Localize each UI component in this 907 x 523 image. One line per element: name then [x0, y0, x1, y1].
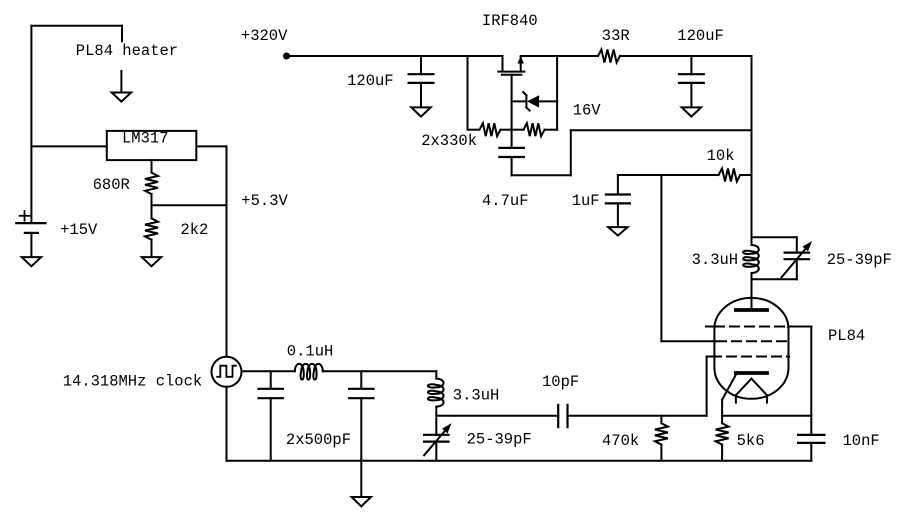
label 5k6	[737, 432, 765, 450]
label 10pF	[542, 373, 579, 391]
capacitor 4.7uF	[499, 130, 751, 175]
resistor 2k2	[145, 205, 158, 257]
wire +5.3V vertical	[226, 146, 228, 356]
svg-text:+15V: +15V	[60, 221, 98, 239]
svg-text:680R: 680R	[93, 176, 130, 194]
tube V1 PL84 envelope	[714, 298, 788, 399]
svg-text:PL84 heater: PL84 heater	[76, 42, 178, 60]
wire clock to ground rail	[226, 387, 228, 461]
label IRF840	[482, 12, 538, 30]
label 2x330k	[421, 132, 477, 150]
heater filament	[736, 379, 767, 403]
wire anode lead	[751, 279, 753, 310]
ground 1uF	[608, 227, 627, 236]
svg-text:3.3uH: 3.3uH	[692, 251, 739, 269]
label 2k2	[180, 221, 208, 239]
label +15V	[60, 221, 98, 239]
wire clock output	[242, 370, 295, 372]
label 3.3uH tank	[692, 251, 739, 269]
mosfet Q1 IRF840	[498, 56, 524, 148]
resistor 5k6	[716, 416, 729, 461]
grid g1 dashed	[717, 340, 789, 342]
wire divider left drop	[467, 56, 469, 130]
resistor 470k	[655, 416, 668, 461]
zener diode 16V	[512, 92, 557, 111]
capacitor 10nF	[798, 435, 824, 461]
trimmer capacitor 25-39pF lower	[424, 416, 452, 461]
node +320V terminal	[283, 53, 290, 60]
label 120uF first	[347, 72, 394, 90]
ground bottom rail	[352, 461, 371, 507]
label 25-39pF tank	[827, 251, 892, 269]
svg-text:14.318MHz clock: 14.318MHz clock	[63, 373, 203, 391]
arrow to PL84 heater	[112, 71, 131, 102]
label 16V	[573, 102, 602, 120]
label 1uF	[572, 192, 600, 210]
ground 120uF second	[682, 107, 701, 116]
anode plate	[736, 308, 767, 312]
svg-text:2x500pF: 2x500pF	[286, 431, 351, 449]
wire cathode node	[722, 415, 811, 417]
trimmer capacitor 25-39pF tank	[752, 237, 813, 279]
capacitor 500pF second	[349, 371, 373, 461]
label +320V	[241, 27, 288, 45]
grid g2 dashed	[706, 326, 811, 328]
svg-text:10pF: 10pF	[542, 373, 579, 391]
wire ground rail bottom	[227, 460, 812, 462]
svg-text:25-39pF: 25-39pF	[827, 251, 892, 269]
svg-text:2k2: 2k2	[180, 221, 208, 239]
svg-text:10nF: 10nF	[843, 432, 880, 450]
resistor 330k left	[468, 123, 512, 136]
wire cathode lead	[722, 375, 736, 416]
wire oscillator node	[436, 415, 558, 417]
svg-text:470k: 470k	[602, 432, 639, 450]
resistor 330k right	[512, 123, 557, 136]
wire B+ vertical	[751, 56, 753, 237]
svg-text:120uF: 120uF	[347, 72, 394, 90]
capacitor 120uF second	[679, 56, 704, 107]
svg-text:25-39pF: 25-39pF	[467, 431, 532, 449]
wire rail to right corner	[620, 55, 752, 57]
label 10k	[707, 147, 735, 165]
wire rail after mosfet	[521, 55, 598, 57]
wire +320V rail	[287, 55, 503, 57]
resistor 10k	[618, 169, 752, 182]
svg-text:16V: 16V	[573, 102, 602, 120]
svg-text:+5.3V: +5.3V	[241, 192, 288, 210]
ground battery	[22, 257, 41, 266]
resistor 33R	[598, 50, 620, 63]
resistor 680R	[145, 173, 158, 206]
inductor L3 3.3uH tank	[743, 237, 759, 279]
capacitor 10pF	[558, 405, 567, 427]
wire left vertical	[30, 26, 32, 223]
label 4.7uF	[482, 192, 529, 210]
svg-text:4.7uF: 4.7uF	[482, 192, 529, 210]
svg-text:2x330k: 2x330k	[421, 132, 477, 150]
capacitor 120uF first	[409, 56, 434, 107]
wire divider right drop	[556, 56, 558, 130]
inductor L2 3.3uH	[428, 371, 444, 416]
label 3.3uH lower	[453, 387, 500, 405]
clock source 14.318MHz	[212, 357, 242, 387]
label PL84	[828, 327, 865, 345]
svg-text:PL84: PL84	[828, 327, 865, 345]
wire LM317 adj	[151, 160, 153, 173]
svg-text:0.1uH: 0.1uH	[287, 342, 334, 360]
wire grid feed	[661, 175, 717, 341]
capacitor 500pF first	[259, 371, 283, 461]
label 14.318MHz clock	[63, 373, 203, 391]
label 33R	[602, 27, 630, 45]
wire LM317 input	[31, 145, 106, 147]
wire after 0.1uH	[323, 370, 437, 372]
label 0.1uH	[287, 342, 334, 360]
wire 10pF to grid3 corner	[568, 415, 707, 417]
capacitor 1uF	[606, 175, 630, 227]
cathode plate	[736, 371, 767, 375]
svg-text:IRF840: IRF840	[482, 12, 538, 30]
label 2x500pF	[286, 431, 351, 449]
svg-text:5k6: 5k6	[737, 432, 765, 450]
wire LM317 output	[196, 145, 226, 147]
svg-text:120uF: 120uF	[677, 27, 724, 45]
wire grid3 riser	[706, 357, 708, 416]
label 680R	[93, 176, 130, 194]
svg-text:10k: 10k	[707, 147, 735, 165]
regulator U1 LM317	[107, 130, 197, 161]
label 470k	[602, 432, 639, 450]
svg-text:3.3uH: 3.3uH	[453, 387, 500, 405]
wire +5.3V node	[152, 204, 227, 206]
ground 120uF first	[411, 107, 430, 116]
inductor L1 0.1uH	[295, 364, 323, 380]
svg-text:+320V: +320V	[241, 27, 288, 45]
label 120uF second	[677, 27, 724, 45]
wire g2 to bypass	[810, 327, 812, 435]
svg-text:1uF: 1uF	[572, 192, 600, 210]
grid g3 dashed	[707, 356, 789, 358]
label 25-39pF lower	[467, 431, 532, 449]
label +5.3V	[241, 192, 288, 210]
ground 2k2	[142, 257, 161, 266]
svg-text:33R: 33R	[602, 27, 630, 45]
label PL84 heater	[76, 42, 178, 60]
wire heater loop top	[31, 26, 122, 42]
label 10nF	[843, 432, 880, 450]
battery +15V	[16, 211, 45, 257]
svg-text:LM317: LM317	[122, 130, 169, 148]
